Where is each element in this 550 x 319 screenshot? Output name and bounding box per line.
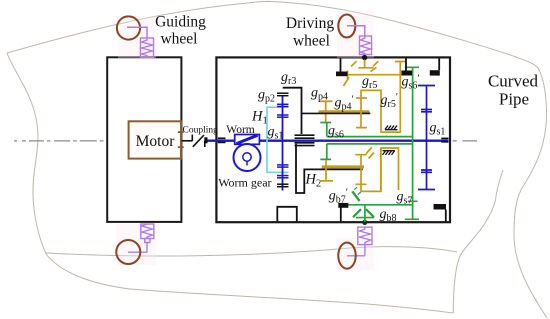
lower ring profile (356, 148, 399, 191)
coupling symbol (182, 135, 205, 147)
driving wheel spring anchor dot (362, 55, 367, 60)
rear lower wheel halo (116, 224, 156, 265)
svg-text:Coupling: Coupling (183, 125, 219, 135)
front lower wheel halo (336, 238, 374, 270)
pipe left end-cap curve (7, 53, 46, 254)
main input shaft (blue) (208, 139, 449, 141)
driving wheel halo (337, 10, 374, 58)
svg-text:wheel: wheel (293, 33, 330, 50)
front lower wheel (338, 243, 355, 269)
bearing cap top 2 (402, 59, 413, 76)
rear lower wheel (116, 240, 140, 264)
r5 fixed support hatch upper (385, 126, 398, 130)
s7 tick on right shaft (408, 200, 418, 202)
shaft bearing at right wall (441, 138, 448, 141)
bevel bottom bar (356, 217, 374, 219)
svg-text:wheel: wheel (160, 31, 197, 48)
shaft bearing at left wall (218, 138, 226, 142)
tint halo green sleeve (322, 132, 416, 148)
upper ring gear r5 assembly (orange) (344, 60, 406, 133)
tint halo p4 bar area (314, 95, 372, 123)
front lower wheel spring anchor dot (362, 220, 367, 225)
guiding wheel (117, 16, 140, 39)
r5 rail end ticks (348, 71, 401, 80)
rear lower wheel spring (128, 224, 154, 252)
left wheel-unit box (107, 57, 181, 222)
long pinion g_p4' (orange bar) (319, 110, 370, 113)
r5 spring shaft (358, 60, 373, 68)
worm gear hub stem (246, 161, 248, 166)
driving wheel (338, 15, 355, 38)
sun gear g_s1 right (blue) (418, 86, 435, 190)
r5 mesh diagonals (344, 61, 379, 86)
carrier H1 (cyan) (267, 107, 289, 172)
guiding wheel halo (118, 16, 156, 60)
bearing cap top 3 (430, 59, 440, 76)
carrier H2 (black) (296, 144, 363, 193)
output shaft g_s7 (green right vertical) (405, 67, 419, 219)
pipe right outer curve (514, 68, 547, 318)
r5' ring profile (356, 62, 406, 133)
driving wheel spring (360, 36, 372, 56)
centerline dash-dot left segment (14, 140, 129, 142)
r3 mesh bars on shaft (295, 135, 315, 145)
pipe right inner curve (453, 170, 503, 313)
pipe top arc (7, 1, 538, 68)
g_s1 left mesh bars black bottom (277, 184, 289, 187)
bottom pedestal notch (277, 207, 297, 222)
carrier arm to p4 (black) (302, 112, 370, 114)
tint halo bevel set (344, 188, 384, 222)
motor shaft stubs (178, 132, 184, 147)
worm gear hub icon (243, 153, 251, 161)
bevel gear set (green) (342, 187, 418, 222)
p4 mirror vertical (320, 160, 334, 181)
front lower wheel spring (347, 227, 372, 256)
motor (129, 121, 181, 158)
svg-text:Worm gear: Worm gear (218, 176, 271, 190)
g_s1 left mesh bars black top (277, 93, 289, 96)
worm gear (234, 144, 261, 171)
lower support hatch (383, 151, 396, 155)
bevel shaft to spring (364, 205, 366, 222)
lower pinion bar (orange) (322, 165, 364, 168)
bevel b7' (352, 191, 359, 201)
pipe bottom outer arc (46, 254, 453, 313)
r5 rail (346, 74, 402, 76)
coupling end block (204, 137, 207, 143)
driving wheel axle link (347, 26, 365, 36)
sun gear g_s1 left (blue vertical) (282, 96, 284, 191)
bearing cap top 1 (336, 59, 348, 77)
tint halo right shafts (406, 62, 436, 220)
planet gear g_p4 (orange vertical) (319, 101, 333, 121)
bearing cap bottom 2 (434, 204, 447, 222)
guiding wheel spring (141, 38, 154, 58)
g_s1 left mesh bars blue (277, 104, 289, 178)
worm (blue box with diagonal) (235, 135, 260, 145)
tint halo H1 carrier area (261, 99, 293, 179)
tint halo lower orange set (316, 145, 402, 193)
svg-text:Guiding: Guiding (155, 14, 206, 31)
guiding wheel axle link (127, 27, 147, 38)
gearbox housing (216, 57, 450, 222)
svg-text:Driving: Driving (286, 15, 334, 32)
svg-text:Motor: Motor (136, 133, 176, 150)
centerline dash-dot right segment (453, 140, 477, 142)
svg-text:Curved: Curved (488, 72, 539, 91)
pipe bottom inner arc (46, 247, 457, 256)
lower planetary set (orange mirror) (320, 147, 399, 191)
output sleeve gear g_s6 (green) (320, 123, 412, 160)
tint halo upper orange set (352, 59, 404, 135)
lower mesh diagonals (366, 147, 374, 158)
ring gear r3 (black) (283, 88, 302, 134)
svg-text:Pipe: Pipe (499, 90, 529, 109)
bearing cap bottom 1 (338, 203, 348, 222)
bevel b8 pair (353, 209, 361, 217)
s7 axis (342, 204, 413, 206)
